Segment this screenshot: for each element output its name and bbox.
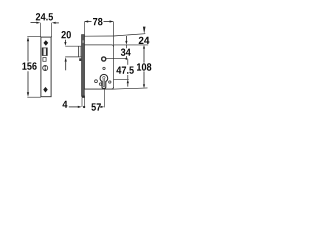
dim 24.5 left arrow <box>36 22 40 24</box>
dim 57 label <box>91 103 101 110</box>
auxiliary bolt block <box>79 58 81 61</box>
faceplate edge (dark bar) <box>81 35 84 97</box>
dim 4 arrow <box>69 106 78 108</box>
dim 57 extension from cylinder centre <box>103 89 105 107</box>
dim 156 bottom extension line <box>27 96 41 98</box>
dim 78 line <box>85 21 92 23</box>
small stud at cylinder stem <box>99 83 101 85</box>
dim 24 label <box>139 37 150 44</box>
faceplate bottom tip <box>82 96 85 98</box>
lock case outline <box>84 35 113 37</box>
dim 34 label <box>121 49 131 56</box>
dim 24.5 left extension line <box>39 23 41 37</box>
dim 4 label <box>63 101 68 108</box>
follower leader line <box>106 58 127 60</box>
latchbolt cross-section <box>65 45 81 47</box>
faceplate outline <box>41 37 51 97</box>
dim 156 line <box>27 41 29 62</box>
dim 4 extension lines from faceplate <box>81 97 83 107</box>
lock body bottom edge with rounded corner + extension <box>84 87 113 89</box>
euro profile cylinder <box>100 74 108 88</box>
dim 156 top arrow <box>27 37 29 42</box>
auxiliary square opening <box>43 58 46 62</box>
dim 156 label <box>22 62 36 69</box>
dim 78 left extension <box>83 22 85 37</box>
dim 20 leader and arrows <box>64 40 66 42</box>
fixing hole right of cylinder <box>109 81 111 83</box>
cylinder centre extension line <box>114 78 129 80</box>
faceplate screw notch <box>82 40 84 43</box>
screw post below follower <box>103 67 105 69</box>
dim 108 label <box>137 63 151 70</box>
dim 24.5 line <box>31 22 37 24</box>
handle follower (spindle hub) <box>102 57 106 61</box>
dim 57 dot terminator <box>83 106 85 108</box>
dim 57 line <box>100 106 102 108</box>
dim 24 top leader <box>143 27 146 34</box>
dim 34 line with arrow and dot <box>125 36 127 41</box>
fixing hole left of cylinder <box>95 80 98 83</box>
dim 24.5 right extension line <box>51 23 53 37</box>
screw hole top (diamond) <box>43 40 48 46</box>
dim 78 right arrow <box>110 20 114 22</box>
dim 20 label <box>61 31 71 38</box>
dim 47.5 line <box>127 59 129 65</box>
dim 78 left arrow <box>84 20 88 22</box>
sloped extension line to 24-dim <box>114 34 146 36</box>
dim 156 top extension line <box>27 36 41 38</box>
cylinder hole (circle with profile) <box>43 66 48 71</box>
dim 24.5 label <box>36 13 53 20</box>
dim 47.5 label <box>116 67 133 74</box>
lock body top edge with rounded corner + extension <box>84 45 113 47</box>
dim 108 line with arrows <box>143 45 145 49</box>
cylinder keyway <box>103 76 105 86</box>
dim 78 label <box>93 18 103 25</box>
screw hole bottom (diamond) <box>43 87 48 93</box>
dim 156 bottom arrow <box>27 92 29 97</box>
dim 24.5 right arrow <box>52 22 56 24</box>
latch opening with latchbolt cross-section <box>42 48 47 56</box>
